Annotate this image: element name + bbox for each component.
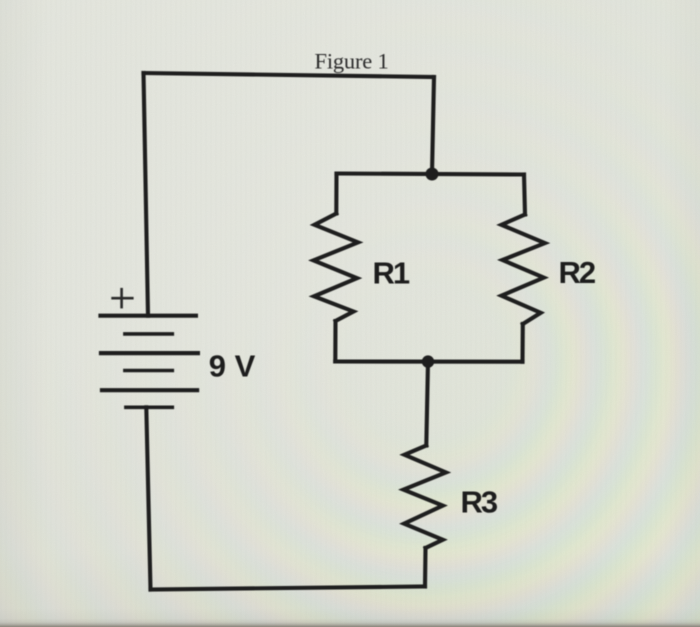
svg-text:R2: R2 <box>559 255 595 290</box>
svg-text:Figure 1: Figure 1 <box>315 49 389 74</box>
svg-text:R3: R3 <box>461 485 498 520</box>
svg-text:9 V: 9 V <box>209 348 256 383</box>
svg-text:R1: R1 <box>373 255 410 290</box>
